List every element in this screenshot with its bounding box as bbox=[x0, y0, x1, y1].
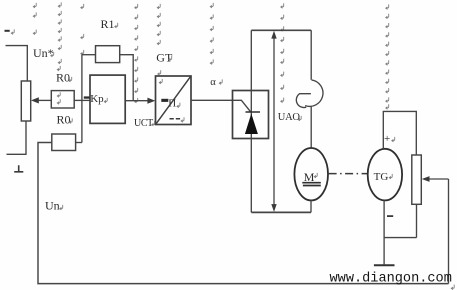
svg-text:Un: Un bbox=[45, 199, 60, 213]
ground bar (bottom) bbox=[374, 264, 395, 266]
svg-text:R0: R0 bbox=[56, 71, 70, 85]
amplifier Kp box bbox=[90, 75, 125, 123]
Kp output arrow into GT bbox=[125, 98, 155, 104]
wire: potentiometer bottom bbox=[7, 121, 27, 154]
bottom bus wire bbox=[251, 211, 311, 213]
label -Kp bbox=[84, 93, 107, 105]
label Un* bbox=[33, 46, 54, 60]
wire R1 left bbox=[82, 54, 96, 56]
svg-text:Π: Π bbox=[168, 98, 176, 110]
label UAO bbox=[278, 112, 301, 123]
shaft coupling dash-dot bbox=[329, 173, 368, 175]
label TG bbox=[374, 171, 393, 183]
wire R0 lower right bbox=[76, 142, 82, 144]
GT diagonal bbox=[156, 76, 191, 124]
label minus (TG) bbox=[387, 215, 393, 217]
label M with underlines bbox=[302, 170, 321, 186]
label + bbox=[384, 133, 395, 145]
feedback wire Un (left + bottom) bbox=[38, 143, 449, 284]
potentiometer RP1 bbox=[21, 81, 30, 121]
TG bottom wire to ground bbox=[383, 200, 385, 264]
thyristor symbol bbox=[245, 112, 260, 134]
svg-text:+: + bbox=[384, 133, 390, 145]
corner paragraph mark bbox=[451, 285, 454, 290]
wire: given-voltage input L bbox=[6, 46, 28, 81]
paragraph mark column E bbox=[135, 4, 138, 103]
GT dashes bbox=[170, 117, 185, 122]
tachogenerator TG bbox=[368, 149, 402, 201]
svg-text:www.diangon.com: www.diangon.com bbox=[330, 271, 452, 286]
right feedback vertical wire bbox=[448, 179, 450, 284]
resistor R1 bbox=[96, 46, 120, 63]
smoothing reactor bbox=[296, 30, 323, 148]
svg-text:R0: R0 bbox=[57, 112, 71, 126]
TG plus terminal wire bbox=[383, 111, 416, 155]
potentiometer RP2 bbox=[412, 155, 422, 204]
top bus wire bbox=[251, 29, 311, 31]
main DC bus vertical through rectifier bbox=[250, 30, 252, 212]
thyristor rectifier box bbox=[233, 91, 269, 139]
GT pulse symbol bbox=[161, 98, 180, 110]
svg-text:M: M bbox=[304, 170, 315, 184]
paragraph mark column B bbox=[57, 2, 61, 71]
paragraph mark column A (top-left) bbox=[33, 3, 36, 35]
label R0 upper bbox=[56, 71, 72, 85]
label GT bbox=[156, 50, 173, 64]
label alpha bbox=[210, 77, 222, 88]
svg-text:Un*: Un* bbox=[33, 46, 54, 60]
wiper arrow into RP2 bbox=[422, 176, 449, 182]
paragraph mark column H bbox=[281, 3, 284, 102]
svg-text:R1: R1 bbox=[101, 17, 115, 31]
svg-text:GT: GT bbox=[156, 50, 173, 64]
trigger GT box bbox=[156, 76, 192, 125]
svg-text:UAO: UAO bbox=[278, 112, 301, 123]
label Un bbox=[45, 199, 63, 213]
label R1 bbox=[101, 17, 118, 31]
paragraph mark column C bbox=[81, 4, 84, 55]
wiper arrow into RP1 bbox=[31, 97, 51, 103]
resistor R0 lower bbox=[52, 134, 76, 151]
svg-text:α: α bbox=[210, 77, 216, 88]
svg-text:Kp: Kp bbox=[90, 93, 104, 105]
wire RP2 bottom junction bbox=[384, 204, 416, 237]
svg-text:UCT: UCT bbox=[134, 118, 153, 129]
label UCT bbox=[134, 118, 155, 129]
paragraph mark column F bbox=[157, 4, 162, 84]
motor M bbox=[294, 148, 328, 200]
paragraph mark column I bbox=[386, 4, 389, 109]
ground symbol (left) bbox=[14, 165, 23, 172]
motor bottom wire bbox=[310, 200, 312, 212]
resistor R0 upper bbox=[51, 91, 74, 108]
wire R0 to Kp bbox=[74, 99, 90, 101]
minus polarity label top-left bbox=[5, 29, 15, 34]
wire GT output to thyristor gate bbox=[191, 100, 251, 112]
label R0 lower bbox=[57, 112, 73, 126]
paragraph mark column G bbox=[210, 3, 213, 65]
node: summing junction vertical bbox=[81, 55, 83, 143]
wire R1 right down to output bbox=[120, 55, 134, 101]
UAO measurement arrow bbox=[271, 31, 276, 212]
svg-text:TG: TG bbox=[374, 171, 389, 183]
